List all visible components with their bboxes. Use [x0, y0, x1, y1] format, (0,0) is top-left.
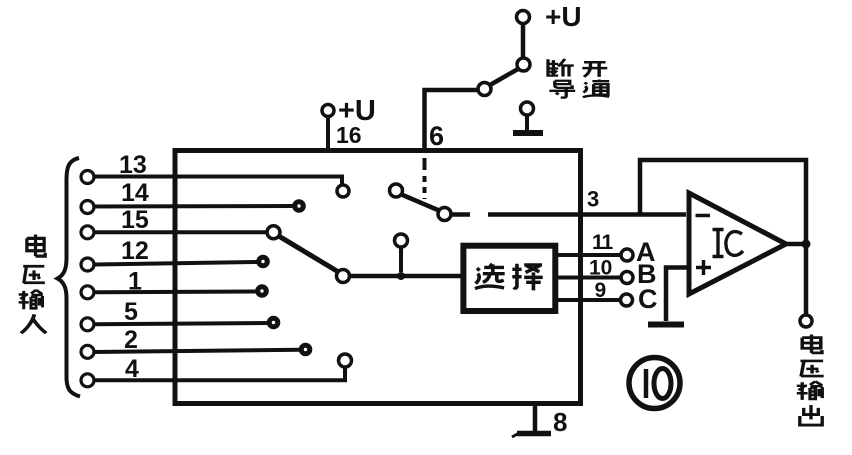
svg-text:16: 16 [336, 122, 362, 148]
wire 1 [94, 290, 256, 295]
common wire to select box [350, 274, 465, 279]
pin 8 wire [533, 405, 538, 431]
wire 5 [94, 323, 267, 324]
contact 14 [292, 199, 306, 213]
svg-text:14: 14 [121, 179, 149, 207]
input terminal 4 [81, 374, 94, 387]
feedback wire [640, 160, 806, 244]
label 导通 [549, 80, 609, 98]
input terminal 15 [81, 226, 94, 239]
input terminal 14 [81, 201, 94, 214]
ground (op-amp) [648, 322, 684, 328]
contact 1 [255, 284, 269, 298]
inhibit switch contact [390, 184, 403, 197]
stub from pole [451, 212, 470, 217]
contact 5 [267, 316, 281, 330]
contact 12 [256, 255, 270, 269]
inhibit switch arm [402, 195, 440, 211]
wire C (pin 9) [556, 298, 620, 302]
ground (pin 8) [512, 432, 551, 437]
contact 15 [267, 226, 280, 239]
terminal A [621, 249, 633, 261]
power switch S1 pole [478, 83, 491, 96]
label IC [713, 230, 744, 257]
svg-text:11: 11 [592, 231, 614, 254]
input terminal 1 [81, 286, 94, 299]
wire op-amp output [784, 244, 806, 315]
input terminal 5 [81, 318, 94, 331]
svg-text:5: 5 [124, 298, 138, 326]
minus input mark [696, 214, 711, 218]
op-amp U1 [689, 193, 786, 294]
plus input ground wire [666, 268, 689, 322]
power switch S1 upper contact [517, 58, 530, 71]
svg-text:6: 6 [429, 121, 444, 151]
wire 13 [94, 177, 342, 185]
wire A (pin 11) [556, 253, 621, 257]
brace [58, 158, 81, 397]
IC box (analog multiplexer) [175, 151, 581, 404]
terminal B [621, 272, 633, 284]
stub to open contact [399, 247, 403, 272]
terminal C [621, 294, 633, 306]
wire 15 [94, 230, 267, 234]
input terminal 13 [81, 171, 94, 184]
output terminal [800, 315, 812, 327]
wire 14 [94, 204, 293, 209]
supply terminal +U (top) [517, 11, 530, 59]
svg-text:3: 3 [587, 187, 599, 212]
contact 2 [299, 343, 313, 357]
input terminal 2 [81, 345, 94, 358]
power switch S1 arm [490, 69, 518, 85]
svg-text:C: C [638, 284, 658, 314]
plus input mark [696, 260, 711, 275]
selector switch pole [337, 270, 350, 283]
junction dot [397, 272, 405, 280]
wire 12 [94, 262, 257, 265]
label 断开 [548, 59, 607, 77]
select block 选择 [463, 246, 555, 311]
svg-text:+U: +U [545, 1, 582, 32]
dashed coupling line from pin 6 [423, 158, 427, 199]
figure number 10 circled [629, 358, 680, 409]
wire pole to pin 6 [425, 90, 479, 150]
output junction [802, 240, 811, 249]
contact 4 [339, 354, 352, 367]
wire 4 [94, 367, 345, 380]
wire 2 [94, 350, 300, 352]
switch lower contact with ground [513, 102, 543, 133]
svg-text:10: 10 [589, 257, 612, 280]
wire B (pin 10) [556, 276, 621, 280]
svg-text:15: 15 [121, 206, 149, 234]
selector switch arm [279, 236, 339, 272]
inhibit switch pole [438, 208, 451, 221]
contact 13 [337, 185, 349, 197]
svg-text:12: 12 [121, 237, 149, 265]
label 电压输入 [19, 235, 47, 334]
label 电压输出 [797, 334, 824, 425]
input terminal 12 [81, 258, 94, 271]
pin 16 terminal +U [322, 105, 334, 151]
svg-text:8: 8 [553, 407, 567, 437]
wire pin 3 to op-amp [488, 212, 686, 217]
svg-text:9: 9 [595, 279, 607, 302]
open contact [395, 234, 408, 247]
label 选择 [475, 264, 543, 291]
